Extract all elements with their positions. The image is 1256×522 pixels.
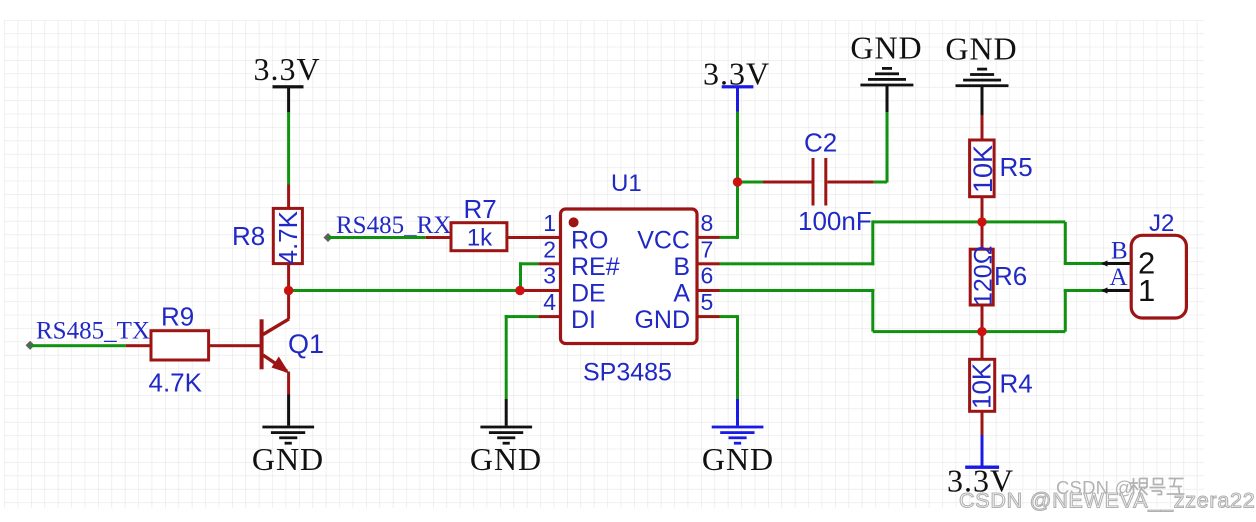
svg-text:6: 6 [701,263,714,289]
wire node to pin8 [720,182,740,239]
svg-text:1k: 1k [467,224,493,251]
connector J2 [1131,235,1186,318]
svg-text:GND: GND [470,441,542,477]
power 3.3V (center, blue) [703,56,770,113]
node junction (B row) [977,217,986,226]
svg-text:J2: J2 [1149,210,1174,237]
svg-text:4: 4 [543,289,556,315]
svg-text:RE#: RE# [571,253,620,281]
J2 pin 2 stub [1101,260,1131,266]
svg-text:4.7K: 4.7K [149,368,203,398]
svg-text:A: A [1110,264,1128,291]
pin 2 RE# [538,236,619,281]
wire pin5 to ground [720,315,740,426]
capacitor C2 [738,158,888,206]
ground (DI) [480,426,532,445]
svg-text:RS485_RX: RS485_RX [336,212,451,239]
svg-text:RS485_TX: RS485_TX [36,318,150,345]
wire junction to pin3 [520,289,561,292]
svg-text:DE: DE [571,280,606,308]
svg-text:10K: 10K [968,145,998,193]
svg-text:1: 1 [543,210,556,236]
wire B leg to J2 pin2 [1064,222,1103,265]
wire A bottom row [873,330,1066,333]
watermark CSDN @genhaowu [1056,477,1185,498]
svg-text:10K: 10K [967,362,997,409]
svg-text:SP3485: SP3485 [583,359,672,387]
pin 5 GND [634,289,719,334]
wire pin7 B leg [720,220,875,265]
svg-text:R5: R5 [1000,152,1033,182]
svg-text:C2: C2 [804,128,837,158]
wire R9 to base [209,344,262,347]
svg-text:R8: R8 [232,221,265,251]
wire emitter to ground [287,395,290,426]
resistor R5 [968,140,998,197]
svg-text:8: 8 [701,210,714,236]
watermark CSDN @NEWEVA__zzera22 [959,489,1256,514]
pin 4 DI [538,289,596,334]
wire R4 to 3.3V [981,411,984,466]
svg-text:2: 2 [543,236,556,262]
wire R5 to node [981,197,984,222]
pin 3 DE [538,263,605,308]
node junction (VCC) [733,177,742,186]
node junction (A row) [977,327,986,336]
wire DI to ground [505,315,539,426]
transistor Q1 [260,291,291,396]
svg-text:GND: GND [252,441,324,477]
svg-text:DI: DI [571,306,596,334]
power 3.3V (left) [253,51,320,113]
wire RS485_TX [30,344,151,347]
svg-text:3: 3 [543,263,556,289]
wire pin6 A leg [720,289,875,332]
svg-text:7: 7 [701,236,714,262]
svg-text:Q1: Q1 [288,329,324,359]
ground (pin5, blue) [712,426,764,445]
svg-text:5: 5 [701,289,714,315]
svg-text:B: B [673,253,690,281]
resistor R8 [273,208,303,264]
wire R6 to node [981,305,984,332]
svg-text:GND: GND [945,30,1017,66]
resistor R4 [967,359,997,411]
wire end marker [26,341,35,350]
wire R8 to node [287,264,290,289]
svg-text:U1: U1 [611,170,642,197]
wire node to R4 [981,332,984,360]
svg-text:GND: GND [850,30,922,66]
pin 7 B [673,236,719,281]
wire R7 to pin1 [508,236,561,239]
node junction (RE#/DE) [515,286,524,295]
wire C2 to ground [886,112,889,183]
node junction (collector) [284,286,293,295]
svg-text:A: A [673,280,690,308]
wire node to R6 [981,222,984,249]
svg-text:B: B [1111,237,1128,264]
svg-text:CSDN @NEWEVA__zzera22: CSDN @NEWEVA__zzera22 [959,489,1255,513]
wire node to DE (horizontal) [289,289,520,292]
pin 6 A [673,263,719,308]
pin 8 VCC [637,210,719,255]
svg-text:R9: R9 [161,302,194,332]
power 3.3V (bottom, blue) [947,463,1014,499]
svg-text:4.7K: 4.7K [273,210,303,264]
ground (R5 top, flipped up) [956,68,1009,116]
pin 1 RO [538,210,608,255]
wire RE# to DE junction [519,262,538,290]
resistor R9 [151,331,209,360]
ground (Q1 emitter) [262,426,314,445]
svg-text:1: 1 [1138,273,1155,308]
svg-text:RO: RO [571,227,609,255]
svg-text:100nF: 100nF [798,206,872,236]
J2 pin 1 stub [1101,287,1131,293]
wire B top row [873,220,1066,223]
wire 3.3V down [736,112,739,183]
wire RS485_RX to R7 [328,236,452,239]
svg-text:VCC: VCC [637,227,690,255]
resistor R6 [970,246,998,306]
wire ground to R5 [981,115,984,139]
svg-text:GND: GND [634,306,690,334]
svg-text:3.3V: 3.3V [253,51,320,87]
ground (C2, flipped up) [860,67,913,112]
svg-text:GND: GND [702,441,774,477]
wire 3.3V to R8 [287,112,290,210]
wire A leg to J2 pin1 [1064,289,1103,332]
svg-text:R4: R4 [1000,368,1033,398]
IC U1 SP3485 body [561,209,698,344]
wire end marker RX [323,233,332,242]
svg-text:R6: R6 [994,261,1027,291]
svg-text:R7: R7 [464,194,497,224]
resistor R7 [451,223,507,252]
